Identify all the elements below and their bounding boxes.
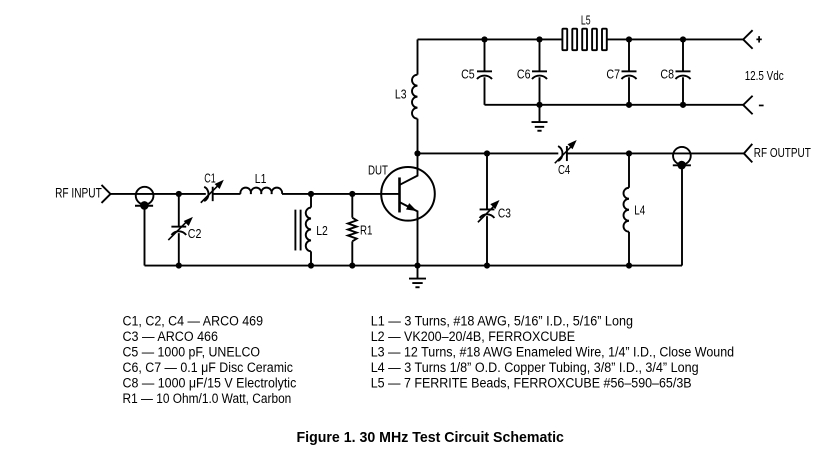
- ground under C6: [532, 105, 548, 131]
- node junction C7 top: [626, 36, 632, 42]
- capacitor C7: [622, 39, 637, 104]
- node junction C8 top: [680, 36, 686, 42]
- node junction R1 bottom: [349, 262, 355, 268]
- svg-text:L3: L3: [395, 87, 407, 102]
- capacitor C4 variable: [555, 140, 577, 163]
- wire input connector down: [144, 205, 146, 265]
- svg-text:L1: L1: [255, 171, 267, 186]
- svg-text:12.5 Vdc: 12.5 Vdc: [745, 68, 784, 83]
- inductor L5 ferrite beads: [562, 29, 606, 51]
- inductor L3: [412, 39, 417, 153]
- svg-text:C6, C7 — 0.1 μF Disc Ceramic: C6, C7 — 0.1 μF Disc Ceramic: [123, 360, 294, 375]
- node junction C6 top: [536, 36, 542, 42]
- svg-text:C6: C6: [517, 66, 531, 81]
- connector J1 input jack: [135, 187, 153, 210]
- svg-text:L3 — 12 Turns, #18 AWG Enamele: L3 — 12 Turns, #18 AWG Enameled Wire, 1/…: [371, 345, 734, 360]
- svg-text:RF OUTPUT: RF OUTPUT: [754, 145, 811, 160]
- svg-text:L4 — 3 Turns 1/8” O.D. Copper: L4 — 3 Turns 1/8” O.D. Copper Tubing, 3/…: [371, 360, 699, 375]
- svg-text:R1 — 10 Ohm/1.0 Watt, Carbon: R1 — 10 Ohm/1.0 Watt, Carbon: [123, 391, 292, 406]
- label minus sign: [759, 104, 764, 106]
- node junction C6 bottom: [536, 102, 542, 108]
- wire capacitor bottom rail: [485, 104, 744, 106]
- svg-text:C1: C1: [204, 170, 216, 185]
- node junction C7 bottom: [626, 102, 632, 108]
- svg-text:RF INPUT: RF INPUT: [55, 186, 102, 201]
- node minus terminal: [743, 96, 752, 115]
- svg-text:L2: L2: [316, 223, 328, 238]
- svg-text:DUT: DUT: [368, 162, 388, 177]
- capacitor C1 variable: [201, 180, 224, 203]
- node RF OUTPUT terminal: [744, 144, 752, 163]
- wire top rail right: [607, 38, 743, 40]
- capacitor C6: [532, 39, 547, 104]
- connector J2 output jack: [673, 147, 691, 266]
- svg-text:L5 — 7 FERRITE Beads, FERROXCU: L5 — 7 FERRITE Beads, FERROXCUBE #56–590…: [371, 376, 692, 391]
- node junction C8 bottom: [680, 102, 686, 108]
- inductor L2 with ferrite core: [295, 194, 311, 266]
- wire input to connector J1: [111, 193, 206, 195]
- wire top rail left: [418, 38, 563, 40]
- node junction C3 bottom: [484, 262, 490, 268]
- svg-text:C4: C4: [558, 162, 570, 177]
- node junction L2 tap: [308, 191, 314, 197]
- inductor L1: [240, 188, 282, 194]
- wire L1 to transistor base: [282, 193, 400, 195]
- node junction C2 tap: [176, 191, 182, 197]
- node plus terminal: [743, 30, 752, 49]
- node junction C5 top: [481, 36, 487, 42]
- node junction C2 bottom: [176, 262, 182, 268]
- svg-text:C8 — 1000 μF/15 V Electrolytic: C8 — 1000 μF/15 V Electrolytic: [123, 376, 297, 391]
- ground under emitter: [409, 266, 426, 288]
- wire output rail middle: [567, 152, 744, 154]
- node junction C3 tap: [484, 150, 490, 156]
- svg-text:Figure 1. 30 MHz Test Circuit: Figure 1. 30 MHz Test Circuit Schematic: [297, 429, 564, 446]
- svg-text:R1: R1: [360, 223, 372, 238]
- node junction L2 bottom: [308, 262, 314, 268]
- svg-text:L1 — 3 Turns, #18 AWG, 5/16” I: L1 — 3 Turns, #18 AWG, 5/16” I.D., 5/16”…: [371, 314, 633, 329]
- wire output rail left: [418, 152, 559, 154]
- svg-text:L4: L4: [634, 203, 645, 218]
- svg-text:C1, C2, C4 — ARCO 469: C1, C2, C4 — ARCO 469: [123, 314, 264, 329]
- node junction L4 bottom: [626, 262, 632, 268]
- transistor Q1 DUT: [381, 153, 435, 265]
- resistor R1: [348, 194, 357, 266]
- inductor L4: [624, 153, 630, 265]
- svg-text:C7: C7: [606, 66, 620, 81]
- node junction L4 tap: [626, 150, 632, 156]
- node junction emitter bottom: [414, 262, 420, 268]
- component list right column: [371, 314, 734, 391]
- component list left column: [123, 314, 297, 407]
- svg-text:C5: C5: [461, 66, 475, 81]
- svg-text:L2 — VK200–20/4B, FERROXCUBE: L2 — VK200–20/4B, FERROXCUBE: [371, 329, 575, 344]
- node junction collector: [414, 150, 420, 156]
- svg-text:C3 — ARCO 466: C3 — ARCO 466: [123, 329, 219, 344]
- capacitor C8: [676, 39, 691, 104]
- svg-text:L5: L5: [581, 13, 591, 28]
- wire C1 to L1: [213, 193, 241, 195]
- node RF INPUT terminal: [102, 185, 111, 203]
- label plus sign: [756, 36, 761, 42]
- wire bottom ground rail: [145, 265, 683, 267]
- capacitor C5: [477, 39, 492, 104]
- svg-text:C2: C2: [188, 226, 202, 241]
- svg-text:C3: C3: [498, 206, 511, 221]
- svg-text:C5 — 1000 pF, UNELCO: C5 — 1000 pF, UNELCO: [123, 345, 261, 360]
- node junction R1 tap: [349, 191, 355, 197]
- svg-text:C8: C8: [660, 66, 674, 81]
- capacitor C3 variable: [478, 153, 500, 265]
- capacitor C2 variable: [168, 194, 193, 266]
